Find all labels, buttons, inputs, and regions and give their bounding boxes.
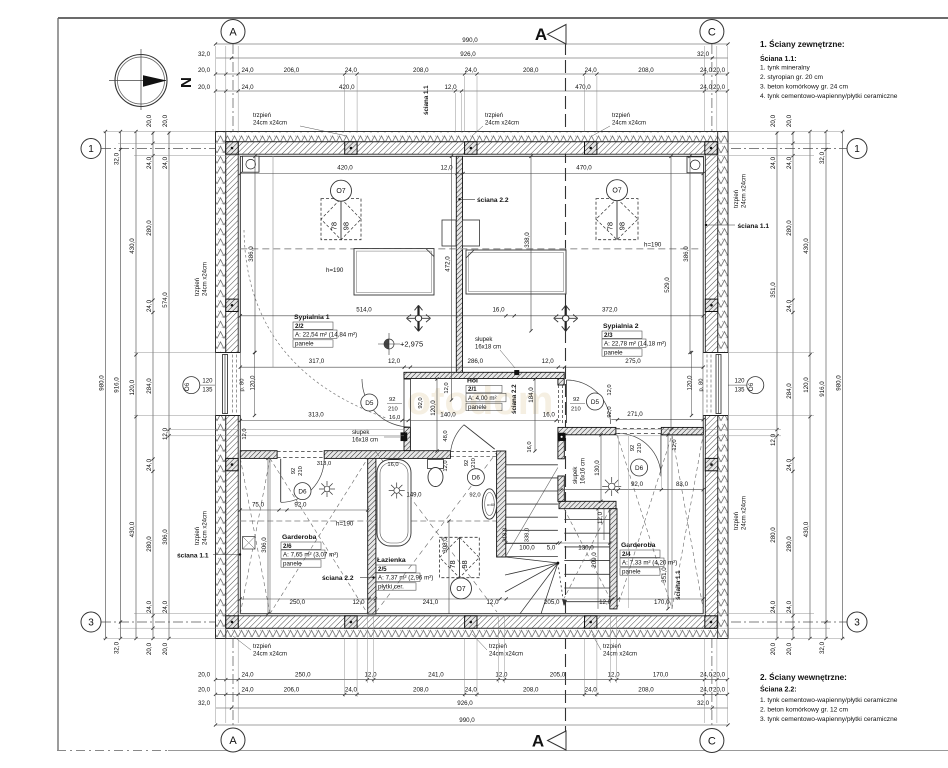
outer wall styrofoam top (216, 132, 729, 142)
svg-text:20,0: 20,0 (786, 642, 793, 655)
svg-text:24cm x24cm: 24cm x24cm (485, 121, 519, 127)
wall between bathroom and stairs (497, 451, 506, 557)
svg-text:92: 92 (291, 468, 297, 474)
svg-text:280,0: 280,0 (146, 536, 153, 552)
bathtub (377, 460, 411, 547)
light point stair landing (608, 483, 615, 490)
svg-text:24,0: 24,0 (146, 156, 153, 169)
svg-text:16,0: 16,0 (543, 412, 556, 419)
svg-text:32,0: 32,0 (697, 700, 710, 707)
svg-text:48,0: 48,0 (443, 430, 449, 441)
svg-text:trzpień: trzpień (195, 527, 201, 545)
stair landing north wall (558, 427, 616, 434)
svg-text:trzpień: trzpień (612, 113, 630, 119)
svg-text:92,0: 92,0 (418, 397, 424, 408)
interior wall 2.2 between bedrooms (456, 156, 462, 372)
window O6 left wall (216, 353, 241, 416)
svg-text:78: 78 (330, 222, 339, 230)
svg-text:24,0: 24,0 (146, 458, 153, 471)
svg-text:351,0: 351,0 (770, 282, 777, 298)
grid bubble 3 right (847, 612, 867, 632)
svg-text:280,0: 280,0 (786, 220, 793, 236)
bed sypialnia 2 (466, 250, 566, 294)
svg-text:p. 80: p. 80 (699, 379, 705, 392)
pillar right R2 (705, 458, 717, 470)
svg-text:20,0: 20,0 (198, 67, 211, 74)
dim col left 430-120-430 (135, 132, 137, 639)
bed sypialnia 1 (354, 249, 434, 295)
svg-text:24,0: 24,0 (700, 84, 713, 91)
wall between garderoba 2/6 and bathroom (368, 451, 376, 614)
svg-text:24,0: 24,0 (146, 299, 153, 312)
svg-text:24,0: 24,0 (786, 600, 793, 613)
low zone strip west (240, 458, 270, 613)
dim interior 209 stairs (597, 509, 599, 609)
svg-text:panele: panele (283, 561, 302, 568)
svg-text:208,0: 208,0 (523, 67, 539, 74)
svg-text:O7: O7 (456, 586, 465, 593)
svg-text:420,0: 420,0 (339, 84, 355, 91)
svg-text:472,0: 472,0 (444, 256, 451, 272)
svg-text:120,0: 120,0 (129, 379, 136, 395)
svg-text:3. beton komórkowy gr. 24 cm: 3. beton komórkowy gr. 24 cm (760, 84, 848, 91)
dim col left chain (152, 132, 154, 639)
svg-text:5,0: 5,0 (547, 545, 556, 552)
svg-text:24cm x24cm: 24cm x24cm (742, 496, 748, 530)
svg-text:98: 98 (342, 222, 351, 230)
dim row top chain (216, 73, 729, 75)
svg-text:O6: O6 (748, 382, 755, 391)
svg-text:ściana 1.1: ściana 1.1 (177, 553, 209, 560)
svg-text:205,0: 205,0 (550, 672, 566, 679)
door D6 garderoba24 marker (631, 459, 648, 476)
svg-text:1. tynk cementowo-wapienny/pły: 1. tynk cementowo-wapienny/płytki cerami… (760, 697, 898, 704)
svg-text:149,0: 149,0 (406, 493, 422, 499)
svg-text:D6: D6 (472, 475, 481, 482)
svg-text:926,0: 926,0 (457, 700, 473, 707)
svg-text:p. 80: p. 80 (240, 379, 246, 392)
grid bubble A bottom (221, 728, 245, 752)
svg-text:16,0: 16,0 (387, 462, 398, 468)
svg-text:24,0: 24,0 (162, 156, 169, 169)
svg-text:24,0: 24,0 (241, 672, 254, 679)
svg-text:470,0: 470,0 (575, 84, 591, 91)
dim interior 184 hall (534, 379, 536, 451)
svg-text:A: A (532, 732, 544, 751)
svg-text:275,0: 275,0 (625, 358, 641, 365)
page border top (58, 17, 948, 19)
svg-text:panele: panele (622, 569, 641, 576)
svg-text:210: 210 (571, 407, 581, 413)
dim row top 926 (216, 57, 728, 59)
dim row top 990 (216, 43, 729, 45)
svg-text:529,0: 529,0 (664, 277, 671, 293)
nightstand left of wall (442, 220, 456, 246)
svg-text:470,0: 470,0 (576, 165, 592, 172)
svg-text:Garderoba: Garderoba (621, 542, 656, 549)
grid bubble C bottom (700, 729, 724, 753)
outer wall block bottom (226, 616, 718, 628)
svg-text:130,0: 130,0 (578, 545, 594, 552)
svg-text:271,0: 271,0 (627, 411, 643, 418)
pillar left L1 (226, 299, 238, 311)
pillar bottom B1 (226, 616, 238, 628)
svg-text:20,0: 20,0 (198, 672, 211, 679)
svg-text:24cm x24cm: 24cm x24cm (203, 511, 209, 545)
door D6 garderoba26 marker (294, 483, 311, 500)
svg-text:16x18 cm: 16x18 cm (475, 345, 501, 351)
svg-text:284,0: 284,0 (146, 378, 153, 394)
svg-text:trzpień: trzpień (253, 113, 271, 119)
svg-text:120,0: 120,0 (430, 400, 437, 416)
north compass needle (143, 75, 167, 87)
svg-text:trzpień: trzpień (734, 512, 740, 530)
svg-text:12,0: 12,0 (495, 672, 508, 679)
svg-text:24,0: 24,0 (241, 67, 254, 74)
svg-text:208,0: 208,0 (523, 686, 539, 693)
svg-text:317,0: 317,0 (309, 358, 325, 365)
dim interior row hall (240, 366, 703, 368)
grid bubble C top (700, 20, 724, 44)
svg-text:12,0: 12,0 (599, 599, 612, 606)
dim col right chain2 (776, 132, 778, 639)
nightstand right of wall (463, 220, 480, 246)
svg-text:1. Ściany zewnętrzne:: 1. Ściany zewnętrzne: (760, 38, 845, 49)
arrow cross symbol bedroom2 (565, 306, 567, 331)
interior wall stub left of hall door (404, 373, 410, 380)
garderoba 2/4 doorway dashed wall (616, 427, 661, 429)
pillar top T3 (465, 142, 477, 154)
svg-text:250,0: 250,0 (295, 672, 311, 679)
svg-text:2/3: 2/3 (604, 332, 613, 339)
grid bubble 3 left (81, 612, 101, 632)
slupek post at stairs (558, 433, 566, 441)
garderoba 2/6 and bathroom north wall east segment (324, 451, 450, 459)
pillar right R1 (705, 299, 717, 311)
svg-text:12,0: 12,0 (352, 599, 365, 606)
door D6 garderoba26 leaf (280, 459, 282, 502)
dim row bottom 926 (216, 707, 728, 709)
svg-text:98: 98 (618, 222, 627, 230)
dim interior row garderoba24 (561, 489, 703, 491)
svg-text:16x18 cm: 16x18 cm (352, 438, 378, 444)
door D6 bathroom leaf (464, 425, 495, 449)
dim interior 386 left (254, 156, 256, 352)
svg-text:92,0: 92,0 (631, 481, 644, 488)
svg-text:120,0: 120,0 (251, 375, 257, 391)
svg-text:24,0: 24,0 (241, 686, 254, 693)
svg-text:980,0: 980,0 (835, 375, 842, 391)
svg-text:trzpień: trzpień (485, 113, 503, 119)
svg-text:184,0: 184,0 (528, 387, 535, 403)
svg-text:12,0: 12,0 (443, 460, 449, 471)
svg-text:16,0: 16,0 (527, 441, 533, 452)
stair direction diagonal (506, 468, 558, 557)
svg-text:24,0: 24,0 (786, 156, 793, 169)
svg-text:241,0: 241,0 (428, 672, 444, 679)
washbasin (482, 489, 496, 519)
svg-text:24,0: 24,0 (585, 686, 598, 693)
pillar bottom B4 (585, 616, 597, 628)
svg-text:2/4: 2/4 (622, 551, 631, 558)
outer wall styrofoam right (718, 132, 728, 639)
dim row bottom 990 (216, 724, 729, 726)
svg-text:210: 210 (637, 443, 643, 453)
svg-text:C: C (708, 27, 716, 39)
stair pivot (557, 562, 560, 565)
svg-text:313,0: 313,0 (317, 461, 332, 467)
svg-text:130,0: 130,0 (594, 460, 601, 476)
north compass circle (115, 55, 167, 107)
dim interior 308 center (448, 521, 450, 614)
svg-text:92,0: 92,0 (294, 502, 307, 509)
svg-text:16,0: 16,0 (389, 415, 400, 421)
svg-text:D6: D6 (635, 465, 644, 472)
svg-text:Łazienka: Łazienka (377, 557, 406, 564)
svg-text:208,0: 208,0 (413, 67, 429, 74)
svg-text:A: A (229, 27, 237, 39)
svg-text:32,0: 32,0 (113, 641, 120, 654)
svg-text:o=60: o=60 (487, 503, 495, 507)
dim interior row 514 (240, 315, 703, 317)
svg-text:A: 22,54 m² (14,84 m²): A: 22,54 m² (14,84 m²) (295, 332, 357, 339)
svg-text:24,0: 24,0 (786, 458, 793, 471)
svg-text:351,0: 351,0 (661, 567, 668, 583)
dim interior row 271 (611, 419, 703, 421)
svg-text:2/5: 2/5 (378, 566, 387, 573)
svg-text:135: 135 (202, 388, 213, 394)
svg-text:3: 3 (854, 618, 860, 629)
svg-text:Ściana 1.1:: Ściana 1.1: (760, 54, 797, 63)
svg-text:120: 120 (734, 379, 745, 385)
svg-text:92: 92 (464, 460, 470, 466)
pillar bottom B5 (705, 616, 717, 628)
svg-text:2/1: 2/1 (468, 386, 477, 393)
door D5 bedroom1 leaf (403, 379, 405, 428)
svg-text:1. tynk mineralny: 1. tynk mineralny (760, 65, 811, 72)
svg-text:panele: panele (604, 350, 623, 357)
section line A-A (565, 42, 567, 731)
svg-text:Garderoba: Garderoba (282, 534, 317, 541)
pillar top T1 (226, 142, 238, 154)
svg-text:A: A (535, 25, 547, 44)
svg-text:słupek: słupek (573, 466, 579, 484)
grid bubble A top (221, 20, 245, 44)
svg-text:98: 98 (460, 560, 469, 568)
svg-text:916,0: 916,0 (113, 377, 120, 393)
headroom arc bedroom1 (244, 230, 386, 418)
bathroom door opening dashed (450, 451, 497, 453)
svg-text:2. beton komórkowy gr. 12 cm: 2. beton komórkowy gr. 12 cm (760, 707, 848, 714)
svg-text:284,0: 284,0 (786, 383, 793, 399)
svg-text:ściana 2.2: ściana 2.2 (322, 575, 354, 582)
axis 3 line (101, 621, 847, 623)
stair east wall (610, 509, 617, 609)
svg-text:32,0: 32,0 (198, 51, 211, 58)
svg-text:A: 4,00 m²: A: 4,00 m² (468, 395, 497, 402)
svg-text:A: 7,65 m² (3,07 m²): A: 7,65 m² (3,07 m²) (283, 552, 338, 559)
svg-text:24cm x24cm: 24cm x24cm (603, 652, 637, 658)
level value +2,975 (384, 339, 394, 349)
svg-text:20,0: 20,0 (198, 84, 211, 91)
svg-text:D6: D6 (298, 489, 307, 496)
svg-text:24cm x24cm: 24cm x24cm (203, 262, 209, 296)
svg-text:32,0: 32,0 (697, 51, 710, 58)
svg-text:2. styropian gr. 20 cm: 2. styropian gr. 20 cm (760, 74, 824, 81)
stair flight 2 treads (564, 519, 610, 521)
svg-text:h=190: h=190 (644, 242, 662, 249)
svg-text:990,0: 990,0 (462, 37, 478, 44)
svg-text:24,0: 24,0 (585, 67, 598, 74)
svg-text:A: 22,78 m² (14,18 m²): A: 22,78 m² (14,18 m²) (604, 341, 666, 348)
stair mid landing wall (559, 501, 616, 508)
svg-text:24cm x24cm: 24cm x24cm (612, 121, 646, 127)
svg-text:209,0: 209,0 (591, 552, 598, 568)
svg-text:1: 1 (88, 144, 94, 155)
svg-text:386,0: 386,0 (683, 246, 690, 262)
svg-text:ściana 1.1: ściana 1.1 (675, 570, 682, 600)
svg-text:286,0: 286,0 (468, 358, 484, 365)
svg-text:24,0: 24,0 (241, 84, 254, 91)
svg-text:2/2: 2/2 (295, 323, 304, 330)
svg-text:135: 135 (734, 388, 745, 394)
svg-text:12,0: 12,0 (486, 599, 499, 606)
dim col left 980 (105, 132, 107, 639)
svg-text:16x16 cm: 16x16 cm (581, 458, 587, 484)
svg-text:430,0: 430,0 (803, 521, 810, 537)
outer wall block top (226, 142, 718, 154)
svg-text:12,0: 12,0 (444, 84, 457, 91)
svg-text:205,0: 205,0 (544, 599, 560, 606)
svg-text:210: 210 (298, 466, 304, 476)
svg-text:16,0: 16,0 (492, 307, 505, 314)
door D6 bathroom marker (467, 469, 484, 486)
svg-text:12,0: 12,0 (364, 672, 377, 679)
svg-text:płytki cer.: płytki cer. (378, 584, 404, 591)
svg-text:250,0: 250,0 (290, 599, 306, 606)
svg-text:120,0: 120,0 (688, 375, 694, 391)
door D5 bedroom2 leaf (558, 385, 560, 425)
dim interior 472 bedroom1 (451, 156, 453, 400)
svg-text:24,0: 24,0 (700, 672, 713, 679)
svg-text:O7: O7 (612, 188, 621, 195)
svg-text:24cm x24cm: 24cm x24cm (742, 174, 748, 208)
dim interior 338 bedroom2 (530, 156, 532, 330)
svg-text:140,0: 140,0 (440, 412, 456, 419)
svg-text:78: 78 (448, 560, 457, 568)
svg-text:170,0: 170,0 (653, 672, 669, 679)
svg-text:trzpień: trzpień (603, 644, 621, 650)
svg-text:32,0: 32,0 (819, 641, 826, 654)
svg-text:24,0: 24,0 (345, 67, 358, 74)
door D5 bedroom2 marker (587, 393, 604, 410)
svg-text:D5: D5 (591, 399, 600, 406)
svg-text:20,0: 20,0 (162, 114, 169, 127)
light point garderoba 2/6 (324, 486, 330, 492)
svg-text:panele: panele (295, 341, 314, 348)
outer wall styrofoam bottom (216, 628, 729, 638)
svg-text:210: 210 (471, 458, 477, 468)
slupek post at hall (515, 370, 520, 375)
svg-text:92: 92 (630, 445, 636, 451)
svg-text:280,0: 280,0 (770, 527, 777, 543)
svg-text:24cm x24cm: 24cm x24cm (253, 652, 287, 658)
svg-text:338,0: 338,0 (525, 528, 531, 543)
grid bubble 1 right (847, 139, 867, 159)
washer in low strip (243, 537, 256, 550)
vent chimney right (687, 157, 704, 173)
svg-text:12,0: 12,0 (597, 511, 604, 524)
svg-text:12,0: 12,0 (388, 358, 401, 365)
bath tap star (394, 488, 400, 494)
svg-text:318,0: 318,0 (503, 528, 509, 543)
svg-text:92: 92 (573, 397, 579, 403)
svg-text:24,0: 24,0 (465, 686, 478, 693)
svg-text:20,0: 20,0 (198, 686, 211, 693)
svg-text:430,0: 430,0 (803, 238, 810, 254)
svg-text:3. tynk cementowo-wapienny/pły: 3. tynk cementowo-wapienny/płytki cerami… (760, 716, 898, 723)
svg-text:280,0: 280,0 (146, 220, 153, 236)
svg-text:20,0: 20,0 (786, 114, 793, 127)
stair flight 1 treads (506, 464, 558, 466)
svg-text:420,0: 420,0 (337, 165, 353, 172)
stair west wall upper (558, 435, 564, 459)
window O6 left marker (183, 377, 200, 394)
svg-text:ściana 1.1: ściana 1.1 (738, 223, 770, 230)
svg-text:430,0: 430,0 (129, 238, 136, 254)
interior wall below bedroom1 door (404, 427, 410, 450)
svg-text:24,0: 24,0 (700, 67, 713, 74)
svg-text:210: 210 (388, 407, 398, 413)
door D6 garderoba24 leaf (660, 433, 662, 476)
axis 1 line (101, 148, 847, 150)
svg-text:Hol: Hol (467, 377, 478, 384)
svg-text:O7: O7 (336, 188, 345, 195)
vent chimney left (243, 156, 260, 172)
svg-text:4. tynk cementowo-wapienny/pły: 4. tynk cementowo-wapienny/płytki cerami… (760, 93, 898, 100)
svg-text:20,0: 20,0 (713, 67, 726, 74)
svg-text:24,0: 24,0 (700, 686, 713, 693)
svg-text:120,0: 120,0 (803, 377, 810, 393)
kneewall dashed line bottom (240, 520, 496, 522)
dim interior row garderoba26 (240, 509, 367, 511)
low zone garderoba 2/6 (270, 458, 368, 613)
svg-text:12,0: 12,0 (672, 439, 678, 450)
svg-text:208,0: 208,0 (638, 67, 654, 74)
hall north wall (404, 372, 564, 378)
interior wall stub right of hall (558, 379, 564, 386)
dim row bottom chain2 (216, 693, 729, 695)
svg-text:ściana 2.2: ściana 2.2 (511, 384, 518, 414)
dim interior 130 stairs (600, 435, 602, 502)
svg-text:75,0: 75,0 (252, 502, 265, 509)
svg-text:ściana 1.1: ściana 1.1 (423, 85, 430, 115)
svg-text:430,0: 430,0 (129, 521, 136, 537)
svg-text:20,0: 20,0 (146, 642, 153, 655)
pillar left L2 (226, 458, 238, 470)
svg-text:280,0: 280,0 (786, 536, 793, 552)
svg-text:słupek: słupek (475, 337, 493, 343)
flight2 dashed diagonals (564, 509, 610, 598)
svg-text:3: 3 (88, 618, 94, 629)
svg-text:386,0: 386,0 (248, 246, 255, 262)
low zone garderoba 2/4 east (672, 435, 703, 609)
svg-text:92,0: 92,0 (607, 406, 613, 417)
svg-text:20,0: 20,0 (713, 686, 726, 693)
svg-text:A: A (229, 735, 237, 747)
svg-text:24cm x24cm: 24cm x24cm (253, 121, 287, 127)
svg-text:Ściana 2.2:: Ściana 2.2: (760, 685, 797, 694)
